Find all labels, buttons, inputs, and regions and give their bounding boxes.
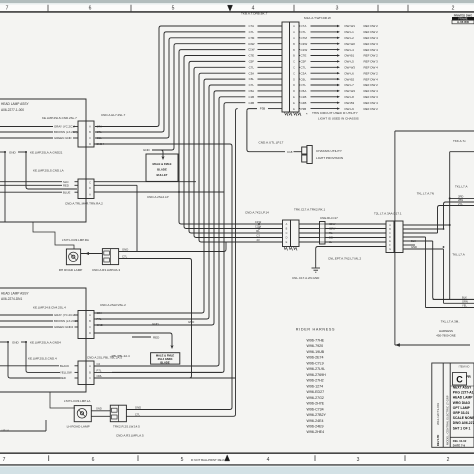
svg-text:C: C	[456, 375, 463, 385]
connector C6 body (LH road lamp)	[110, 405, 126, 422]
svg-text:REF DW 2: REF DW 2	[364, 30, 379, 34]
svg-text:A: A	[293, 24, 295, 28]
svg-text:KE.LMP.2SLS.CND.LA: KE.LMP.2SLS.CND.LA	[33, 169, 64, 173]
wire bundle line 8 to center bus row4	[194, 69, 253, 237]
long vertical wire from top right	[394, 131, 396, 345]
svg-text:PKG 2277-A1: PKG 2277-A1	[453, 391, 474, 395]
svg-text:DW-L7: DW-L7	[345, 83, 355, 87]
wire J1 row 14 horizontal + corner at x=224	[224, 103, 245, 105]
svg-text:KE.LMP.2SLS.CND.2SL.7: KE.LMP.2SLS.CND.2SL.7	[42, 116, 77, 120]
svg-text:C7L: C7L	[249, 30, 255, 34]
svg-text:C7L: C7L	[97, 130, 103, 134]
svg-text:3: 3	[357, 457, 360, 463]
svg-text:ITEM NO: ITEM NO	[459, 365, 470, 369]
wire bundle line 11 into connector C3 row2	[112, 87, 209, 319]
bus wires J2 to J3	[299, 223, 320, 225]
bottom border line	[0, 452, 474, 454]
left edge wire at bottom	[0, 430, 46, 432]
wire bundle line 5 to center bus row1	[179, 52, 253, 224]
LH GND bus wire	[0, 341, 8, 343]
svg-text:4: 4	[267, 457, 270, 463]
svg-text:C7A: C7A	[301, 24, 307, 28]
svg-text:IF NOT BALLPRINT RE-INST: IF NOT BALLPRINT RE-INST	[191, 458, 230, 462]
svg-text:W96-27L9L: W96-27L9L	[307, 367, 326, 371]
svg-text:D: D	[89, 331, 91, 335]
connector C5 body (RH road lamp)	[102, 249, 118, 265]
wire J1 row 6 horizontal + corner at x=184	[184, 56, 245, 58]
svg-text:C5A: C5A	[248, 89, 254, 93]
wire bundle line 7 to center bus row3	[189, 63, 253, 233]
svg-text:DW-L8: DW-L8	[345, 95, 355, 99]
svg-text:C6L: C6L	[301, 77, 307, 81]
svg-text:CND.A.UTL.LP.17: CND.A.UTL.LP.17	[259, 140, 284, 144]
svg-text:W96-77HE: W96-77HE	[307, 338, 325, 342]
wire from GND bus down to C4 row3	[8, 342, 60, 378]
svg-text:G: G	[389, 248, 391, 251]
top gray margin strip	[0, 0, 474, 3]
RH ground bus wire GND	[0, 151, 5, 153]
svg-text:W96-1274: W96-1274	[307, 384, 324, 388]
svg-text:C7L: C7L	[122, 254, 128, 258]
wire bundle line 4 to RH ground splice	[152, 46, 174, 150]
svg-text:REF DW 3: REF DW 3	[364, 42, 379, 46]
svg-text:GREEN GND4: GREEN GND4	[54, 325, 74, 329]
svg-text:TKK.A.7x: TKK.A.7x	[453, 139, 466, 143]
svg-text:DW-B3: DW-B3	[345, 101, 355, 105]
svg-text:GND: GND	[135, 406, 141, 410]
svg-text:T2L.L7.A.3AA.D17.1: T2L.L7.A.3AA.D17.1	[374, 212, 402, 216]
wire J1 row 9 horizontal + corner at x=199	[199, 73, 245, 75]
svg-text:LH ROAD LAMP: LH ROAD LAMP	[67, 425, 90, 429]
svg-text:HARNESS: HARNESS	[439, 329, 453, 333]
svg-text:C: C	[293, 60, 295, 64]
svg-text:E: E	[293, 95, 295, 99]
svg-text:A: A	[89, 193, 91, 197]
svg-text:KE.LMP.2SLS.CND.4: KE.LMP.2SLS.CND.4	[28, 356, 57, 360]
svg-text:D: D	[389, 236, 391, 239]
wire C7L from C5 down to connector C4 row3	[94, 259, 192, 379]
svg-text:C: C	[293, 66, 295, 70]
svg-text:B: B	[293, 48, 295, 52]
svg-text:KE.LMP.24.8.CN4.2SL.4: KE.LMP.24.8.CN4.2SL.4	[33, 306, 66, 310]
title block column dividers	[442, 363, 444, 447]
wire road lamp to connector C6	[91, 410, 110, 412]
svg-text:BLK: BLK	[411, 239, 416, 243]
title block divider line	[450, 436, 474, 438]
wire GND from C6 right	[126, 409, 226, 411]
RH head lamp assembly box	[0, 99, 86, 121]
wire bundle line 2 into connector C1 row2	[95, 34, 164, 132]
wire J1 row 13 horizontal + corner at x=219	[219, 97, 245, 99]
connector J2 body (center)	[283, 220, 291, 247]
connector C4 body	[78, 361, 86, 385]
svg-text:W96-2H7E: W96-2H7E	[307, 402, 325, 406]
svg-text:B: B	[89, 371, 91, 375]
wire bundle line 1 into connector C1 row1	[95, 28, 159, 127]
wires from right riser to page edge	[450, 197, 474, 199]
wires C3 right side to corner stack	[94, 312, 202, 314]
svg-text:REF DW 2: REF DW 2	[364, 71, 379, 75]
svg-text:KE.LMP.2SLA.A.GND21: KE.LMP.2SLA.A.GND21	[30, 150, 63, 154]
svg-text:C3: C3	[256, 234, 260, 238]
svg-text:RED: RED	[60, 376, 66, 380]
connector C2 body	[78, 179, 86, 199]
svg-text:W96-24E4: W96-24E4	[307, 419, 324, 423]
wire from GND bus down left side	[4, 152, 6, 222]
wire J1 row 15 to utility light provision	[247, 109, 257, 111]
svg-text:C7A: C7A	[97, 125, 103, 129]
svg-text:LIGHT PROVISION: LIGHT PROVISION	[316, 156, 343, 160]
svg-text:7: 7	[3, 457, 6, 463]
wire BND4 from connector C1 row4 down to LH road lamp	[94, 144, 232, 410]
center bus wires to connector J2	[253, 223, 282, 225]
wire J1 row 4 horizontal + corner at x=174	[174, 44, 245, 46]
svg-text:CND.A.2SL.FBL.7BL.2A.5: CND.A.2SL.FBL.7BL.2A.5	[87, 355, 122, 359]
wires C4 right side to corner stack	[94, 365, 217, 367]
svg-text:C7E: C7E	[301, 54, 307, 58]
svg-text:OPT LAMP: OPT LAMP	[453, 406, 471, 410]
svg-text:C5F: C5F	[249, 60, 255, 64]
svg-text:GND: GND	[9, 150, 17, 154]
wire GND4 from C3 row4 to LH splice	[94, 333, 172, 345]
svg-text:GND: GND	[152, 322, 160, 326]
svg-text:W96-2769H: W96-2769H	[307, 373, 327, 377]
top right stamp body	[452, 20, 474, 24]
svg-text:BLADE: BLADE	[157, 168, 167, 172]
wire C7W from connector C2 to right	[94, 181, 196, 183]
svg-text:REF DW 2: REF DW 2	[364, 54, 379, 58]
svg-text:C7M: C7M	[301, 36, 308, 40]
svg-text:6: 6	[92, 457, 95, 463]
svg-text:WRG DIAG: WRG DIAG	[453, 401, 471, 405]
wire conn C4 row3 net to riser	[94, 377, 236, 379]
svg-text:REF DW 2: REF DW 2	[364, 107, 379, 111]
svg-text:CND.A.7K2.LP.14: CND.A.7K2.LP.14	[245, 210, 269, 214]
svg-text:W96-27H2: W96-27H2	[307, 379, 324, 383]
svg-text:A: A	[293, 36, 295, 40]
wire J1 row 10 horizontal + corner at x=204	[204, 79, 245, 81]
svg-text:CND.A.2SLP.2SL.2: CND.A.2SLP.2SL.2	[100, 303, 126, 307]
svg-text:BLACK: BLACK	[60, 364, 69, 368]
wire corner to top right	[450, 151, 474, 153]
LH staircase wire to road lamp	[0, 392, 75, 408]
wire bundle line 12 into connector C3 row3	[112, 93, 214, 325]
bottom center alignment arrow	[225, 455, 230, 461]
svg-text:W96-24E9: W96-24E9	[307, 425, 324, 429]
svg-text:GND: GND	[96, 407, 102, 411]
svg-text:TRK.C17.A.TRK2.RK.1: TRK.C17.A.TRK2.RK.1	[294, 207, 326, 211]
svg-text:C: C	[89, 136, 91, 140]
svg-text:CHASSIS UTILITY: CHASSIS UTILITY	[316, 149, 342, 153]
svg-text:GND: GND	[122, 247, 128, 251]
svg-text:23: 23	[256, 238, 260, 242]
svg-text:GND: GND	[12, 340, 20, 344]
wires into connector C2	[0, 181, 62, 183]
junction dots on right riser	[449, 197, 451, 199]
svg-text:MODEL: CENTRAL ELECTRIC LT GRP: MODEL: CENTRAL ELECTRIC LT GRP	[446, 395, 450, 445]
svg-text:A: A	[89, 313, 91, 317]
svg-text:REF DW 2: REF DW 2	[364, 83, 379, 87]
connector C3 body	[78, 311, 86, 339]
wire J1 row 7 horizontal + corner at x=189	[189, 61, 245, 63]
svg-text:C4B: C4B	[248, 101, 254, 105]
svg-text:C1L: C1L	[97, 136, 103, 140]
svg-text:D: D	[89, 142, 91, 146]
top ruler ticks	[47, 5, 49, 12]
svg-text:YEL: YEL	[462, 304, 467, 308]
wire J1 row 5 horizontal + corner at x=179	[179, 50, 245, 52]
wire bundle line 10 into connector C3 row1	[112, 81, 204, 313]
svg-text:C: C	[89, 376, 91, 380]
svg-text:C7L: C7L	[249, 83, 255, 87]
svg-text:2: 2	[447, 457, 450, 463]
svg-text:FR: FR	[466, 375, 471, 379]
title block logo block	[453, 373, 467, 386]
wire C8W from connector C2 down to RH road lamp GND wire	[94, 184, 137, 186]
svg-text:DW-L5: DW-L5	[345, 60, 355, 64]
svg-text:C7L: C7L	[249, 65, 255, 69]
svg-text:C6L: C6L	[249, 77, 255, 81]
svg-text:RED: RED	[63, 183, 69, 187]
wire C3 from connector C2 with junction	[94, 191, 224, 193]
svg-text:CND.A.TRL.MKR.TRN.RA.2: CND.A.TRL.MKR.TRN.RA.2	[65, 201, 103, 205]
svg-text:W96-27G2: W96-27G2	[307, 396, 324, 400]
horizontal arrow wire at y345	[395, 344, 470, 346]
svg-text:W96-2E74: W96-2E74	[307, 356, 324, 360]
svg-text:YELLOW: YELLOW	[60, 371, 72, 375]
svg-text:D: D	[286, 237, 288, 240]
svg-text:E: E	[293, 107, 295, 111]
connector J1 right side pigtail wires and REF DW labels	[299, 25, 300, 27]
svg-text:2: 2	[452, 6, 455, 12]
svg-text:MALE & FMLE: MALE & FMLE	[152, 162, 171, 166]
svg-text:W96-C734: W96-C734	[307, 407, 324, 411]
svg-text:SHT 1 OF 1: SHT 1 OF 1	[453, 426, 471, 430]
svg-text:B: B	[89, 319, 91, 323]
svg-text:C18: C18	[287, 150, 293, 154]
svg-text:DW-W2: DW-W2	[345, 42, 356, 46]
connector J2 cable break zigzags	[284, 247, 288, 251]
svg-text:THIS CIRCUIT USED IF UTILITY: THIS CIRCUIT USED IF UTILITY	[312, 111, 358, 115]
svg-text:C7E: C7E	[248, 54, 254, 58]
wires into connector C1 from lamp	[0, 126, 53, 128]
svg-text:CND.A.HL7.2SL.7: CND.A.HL7.2SL.7	[101, 113, 126, 117]
wire from GND bus to connector C2	[26, 152, 77, 189]
wire J1 row 11 horizontal + corner at x=209	[209, 85, 245, 87]
long horizontal wire top right	[395, 130, 474, 132]
svg-text:KE.LMP.2SLA.A.GND4: KE.LMP.2SLA.A.GND4	[30, 340, 61, 344]
top border line	[0, 11, 474, 13]
wire GND from C5 to bus row5 riser	[119, 242, 226, 252]
wire riser from J1 row15 down to LH road lamp C6	[126, 109, 237, 417]
bottom ruler band	[0, 454, 474, 464]
svg-text:7: 7	[6, 6, 9, 12]
svg-text:W12-12CT3-001: W12-12CT3-001	[436, 402, 440, 425]
svg-text:BULLET: BULLET	[156, 173, 167, 177]
svg-text:D: D	[293, 77, 295, 81]
top right stamp black bar	[452, 17, 474, 20]
svg-text:D: D	[293, 89, 295, 93]
svg-text:C: C	[389, 232, 391, 235]
svg-text:C: C	[286, 232, 288, 235]
svg-text:BLK: BLK	[462, 295, 467, 299]
svg-text:C5A: C5A	[301, 89, 307, 93]
svg-text:C7L: C7L	[301, 66, 307, 70]
wire J1 row 8 horizontal + corner at x=194	[194, 67, 245, 69]
svg-text:CND.A.2SL2.LP: CND.A.2SL2.LP	[147, 195, 169, 199]
svg-text:RIDER HARNESS: RIDER HARNESS	[296, 327, 335, 331]
svg-text:REF DW 4: REF DW 4	[364, 89, 379, 93]
svg-text:DATE 7-9: DATE 7-9	[453, 443, 466, 447]
svg-text:REF DW 4: REF DW 4	[364, 36, 379, 40]
svg-text:TKB.A.T.DRB.BK.7: TKB.A.T.DRB.BK.7	[241, 12, 268, 16]
svg-text:2RD: 2RD	[458, 194, 463, 198]
svg-text:P3B: P3B	[260, 107, 266, 111]
bottom ruler ticks	[48, 455, 50, 461]
svg-text:LIGHT IS USED IN CHASSIS: LIGHT IS USED IN CHASSIS	[318, 117, 359, 121]
svg-text:C2: C2	[97, 362, 101, 366]
svg-text:450-7800-ONE: 450-7800-ONE	[436, 334, 456, 338]
svg-text:C5F: C5F	[301, 60, 307, 64]
title block outer frame	[432, 363, 474, 447]
svg-text:HEAD LAMP: HEAD LAMP	[453, 396, 473, 400]
svg-text:TKL.L7.A.3M..: TKL.L7.A.3M..	[441, 320, 460, 324]
svg-text:C: C	[89, 325, 91, 329]
svg-text:REF DW 4: REF DW 4	[364, 77, 379, 81]
svg-text:CND.A.R3.LMP.LA.5: CND.A.R3.LMP.LA.5	[116, 433, 144, 437]
svg-text:2YL: 2YL	[458, 202, 463, 206]
svg-text:DW-L2: DW-L2	[345, 36, 355, 40]
svg-text:REF DW 4: REF DW 4	[364, 66, 379, 70]
svg-text:LT2T.L3.R3.LMP.LA: LT2T.L3.R3.LMP.LA	[64, 399, 90, 403]
RH staircase wire to road lamp	[0, 222, 74, 249]
LH head lamp assembly box	[0, 288, 86, 311]
wire GND bus to connector C4 row2	[26, 342, 60, 372]
wire bundle line 14 into connector C4 row2	[112, 105, 224, 373]
svg-text:6: 6	[89, 6, 92, 12]
svg-text:C1B: C1B	[301, 95, 307, 99]
svg-text:B: B	[89, 130, 91, 134]
svg-text:C1W: C1W	[301, 48, 308, 52]
svg-text:W96-ED27: W96-ED27	[307, 390, 325, 394]
svg-text:A: A	[293, 30, 295, 34]
LH male female bullet box (dark)	[151, 353, 180, 364]
connector J4 right side wires	[403, 224, 450, 226]
svg-text:E: E	[293, 101, 295, 105]
svg-text:DW-L6: DW-L6	[345, 71, 355, 75]
wire J1 row 3 horizontal + corner at x=169	[169, 38, 245, 40]
RH male female bullet box	[146, 154, 178, 181]
svg-text:W96-2HE4: W96-2HE4	[307, 430, 325, 434]
wire J1 row 1 horizontal + corner at x=159	[159, 26, 245, 28]
svg-text:..LP.LA: ..LP.LA	[0, 428, 9, 432]
svg-text:5: 5	[172, 6, 175, 12]
svg-text:W96-27B2Y: W96-27B2Y	[307, 413, 327, 417]
RH road lamp symbol	[66, 249, 80, 265]
svg-text:SCALE NONE: SCALE NONE	[453, 416, 474, 420]
wire bundle line 9 to center bus row5	[199, 75, 253, 242]
RH splice arrow to bullet box	[153, 150, 164, 156]
svg-text:B: B	[293, 54, 295, 58]
svg-text:HEAD LAMP ASSY: HEAD LAMP ASSY	[1, 102, 29, 106]
svg-text:REF DW 2: REF DW 2	[364, 24, 379, 28]
wires into connector C3	[0, 314, 53, 316]
svg-text:C: C	[293, 71, 295, 75]
connector utility light 2-pin	[302, 147, 307, 154]
svg-text:TKL.L7.A.7N: TKL.L7.A.7N	[417, 191, 434, 195]
connector C1 body	[78, 121, 86, 147]
ground symbol	[312, 267, 321, 269]
svg-text:B: B	[293, 42, 295, 46]
svg-text:REF DW 3: REF DW 3	[364, 95, 379, 99]
svg-text:2BN: 2BN	[458, 198, 463, 202]
svg-text:C7L: C7L	[135, 412, 141, 416]
svg-text:BLADE: BLADE	[160, 360, 169, 364]
svg-text:W96-19UB: W96-19UB	[307, 350, 325, 354]
connector J1 bottom cable break zigzags	[285, 112, 289, 116]
svg-text:BLUE: BLUE	[63, 190, 70, 194]
svg-text:DW-W4: DW-W4	[345, 89, 356, 93]
svg-text:CNL.EPT.A.7N2.L7.ML.2: CNL.EPT.A.7N2.L7.ML.2	[328, 257, 362, 261]
top center alignment arrow	[228, 5, 233, 11]
wire J1 row 12 horizontal + corner at x=214	[214, 91, 245, 93]
junction dots on bus	[258, 223, 260, 225]
wire bundle line 3 into connector C1 row3	[95, 40, 169, 138]
svg-text:A: A	[89, 364, 91, 368]
svg-text:D: D	[89, 186, 91, 190]
svg-text:DW-W3: DW-W3	[345, 66, 356, 70]
svg-text:C1W: C1W	[248, 48, 255, 52]
top ruler band	[0, 5, 474, 12]
svg-text:REF DW 4: REF DW 4	[364, 101, 379, 105]
svg-text:DW-W1: DW-W1	[345, 24, 356, 28]
svg-text:GND: GND	[188, 320, 194, 324]
svg-text:C3W: C3W	[301, 42, 308, 46]
svg-text:C4B: C4B	[301, 101, 307, 105]
svg-text:P3B: P3B	[301, 107, 307, 111]
wire bundle line 13 into connector C4 row1	[112, 99, 219, 366]
svg-text:C7L: C7L	[301, 30, 307, 34]
svg-text:C7M: C7M	[248, 36, 255, 40]
bottom gray-blue margin strip	[0, 466, 474, 474]
connector J3 inline body	[320, 222, 326, 245]
svg-text:RL: RL	[256, 229, 260, 233]
svg-text:A: A	[89, 125, 91, 129]
wire road lamp to connector C5 with arrowhead	[81, 253, 103, 255]
svg-text:C3A: C3A	[301, 71, 307, 75]
svg-text:MALE & FMLE: MALE & FMLE	[156, 354, 175, 358]
svg-text:DW-B2: DW-B2	[345, 77, 355, 81]
svg-text:5: 5	[181, 457, 184, 463]
svg-text:DW-L1: DW-L1	[345, 30, 355, 34]
svg-text:GRP 33-01: GRP 33-01	[453, 411, 470, 415]
svg-text:C7A: C7A	[248, 24, 254, 28]
svg-text:CND.A.R3.LMP.RA.3: CND.A.R3.LMP.RA.3	[92, 268, 120, 272]
svg-text:GND: GND	[143, 148, 151, 152]
svg-text:C3A: C3A	[248, 71, 254, 75]
wire down to ground from connector J4 row6	[316, 247, 386, 268]
svg-text:CNL.C17.A.2N.GND: CNL.C17.A.2N.GND	[292, 276, 320, 280]
connector J1 body (bulkhead connector)	[282, 22, 290, 112]
wires lower right group to page edge	[433, 298, 474, 300]
svg-text:C7L: C7L	[301, 83, 307, 87]
svg-text:3: 3	[336, 6, 339, 12]
svg-text:W96-7920: W96-7920	[307, 344, 324, 348]
svg-text:C1B: C1B	[248, 95, 254, 99]
svg-text:LT2T.L3.R3.LMP.RA: LT2T.L3.R3.LMP.RA	[62, 238, 89, 242]
svg-text:REV LTR: REV LTR	[436, 435, 440, 446]
svg-text:TKL.L7.A: TKL.L7.A	[452, 253, 465, 257]
